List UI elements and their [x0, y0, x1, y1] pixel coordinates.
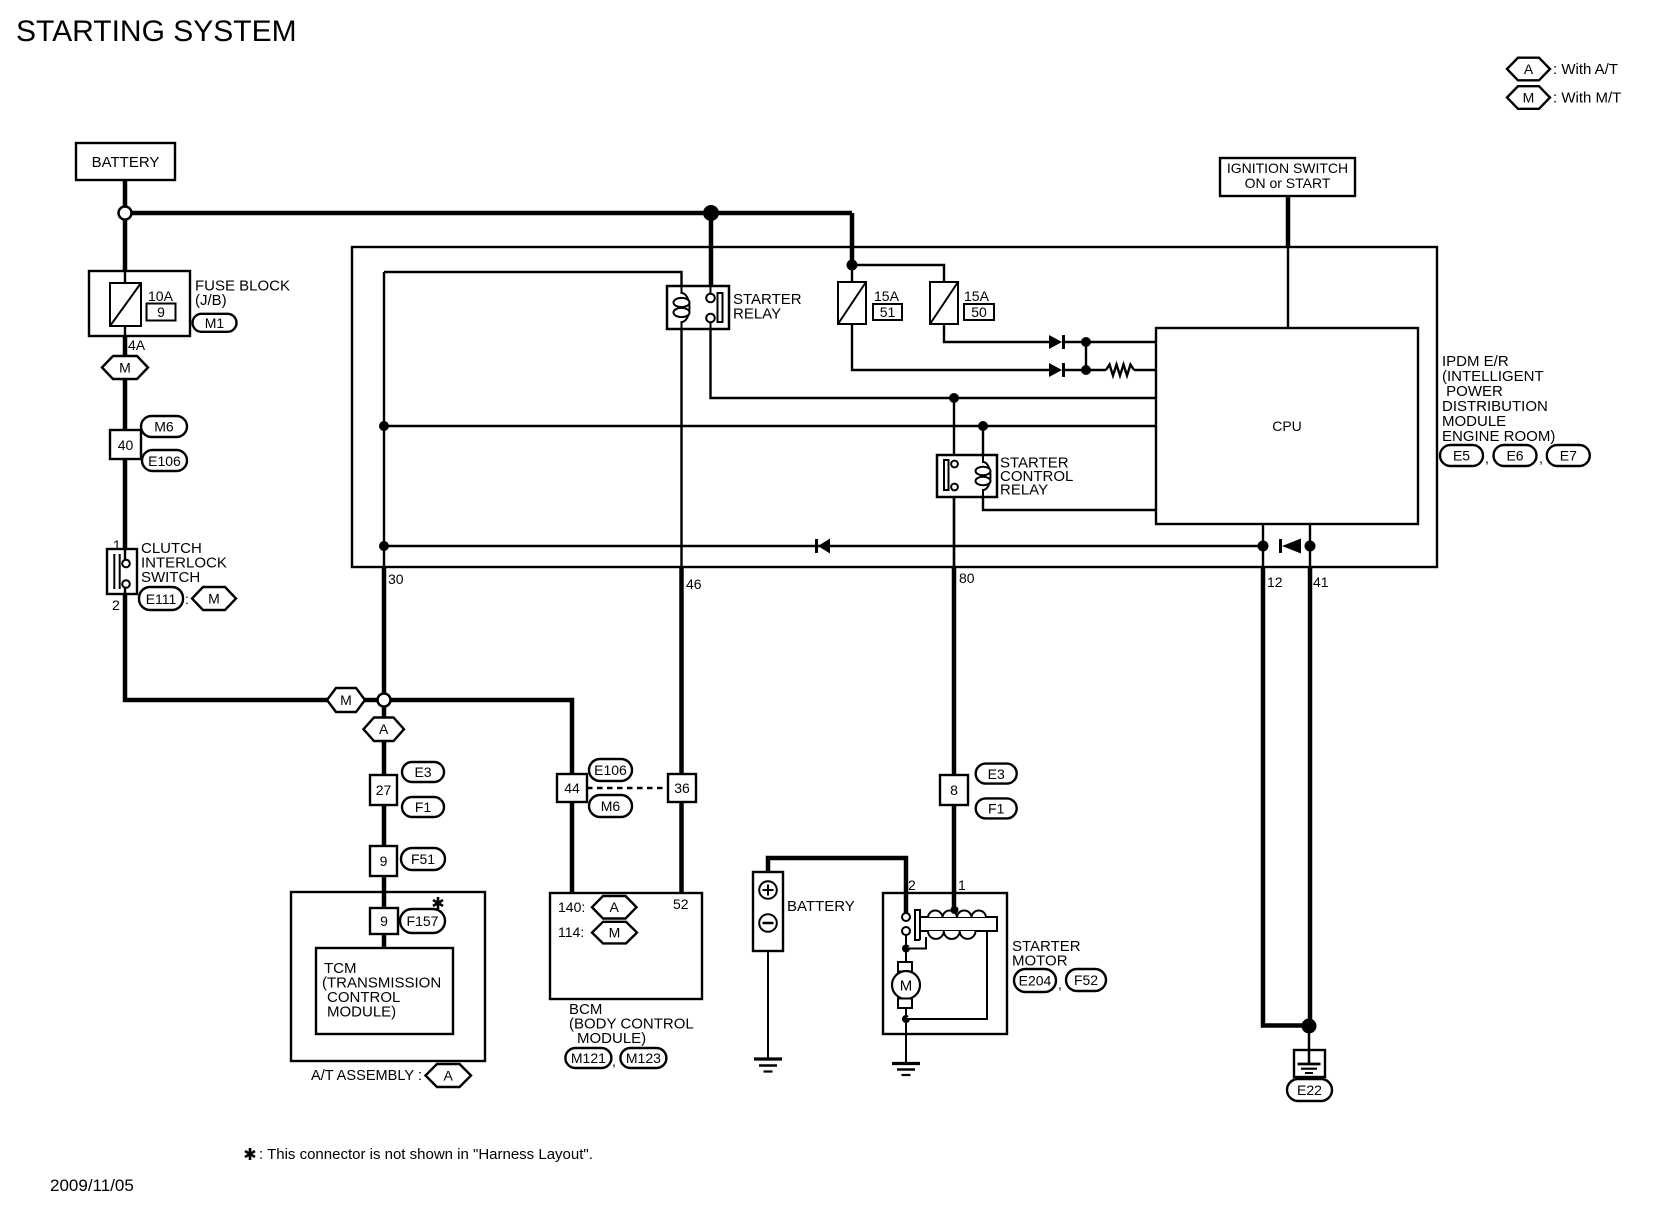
- svg-text:MODULE): MODULE): [327, 1004, 396, 1021]
- svg-text:MOTOR: MOTOR: [1012, 953, 1068, 970]
- connector oval F51: [401, 848, 445, 870]
- hexagon M in BCM: [592, 922, 637, 944]
- node motor bottom dot: [902, 1015, 910, 1023]
- BCM box: [550, 893, 702, 999]
- connector box 9: [370, 846, 397, 876]
- svg-text:F157: F157: [407, 913, 439, 929]
- wire to fuse 51: [851, 265, 853, 282]
- node big ground junction: [1302, 1019, 1317, 1034]
- wire motor ground: [905, 1019, 907, 1064]
- connector oval E6: [1494, 445, 1537, 466]
- TCM inner box: [316, 948, 453, 1034]
- fuse block box: [89, 271, 190, 336]
- svg-text:M: M: [900, 978, 913, 995]
- starter control relay: [937, 455, 997, 497]
- node contact to coil link: [902, 945, 910, 953]
- solenoid coil: [920, 917, 997, 931]
- svg-text:80: 80: [959, 570, 975, 586]
- svg-text:F52: F52: [1074, 972, 1098, 988]
- wire bus drop to fuses: [850, 213, 855, 265]
- svg-text:A: A: [1524, 61, 1534, 77]
- connector oval M123: [620, 1048, 666, 1068]
- svg-text:: With A/T: : With A/T: [1553, 61, 1618, 78]
- asterisk mark: [433, 897, 443, 909]
- svg-text:,: ,: [1058, 976, 1062, 992]
- svg-text:2009/11/05: 2009/11/05: [50, 1176, 134, 1195]
- hexagon A in BCM: [592, 896, 637, 919]
- connector oval E204: [1014, 969, 1056, 992]
- svg-text:M121: M121: [571, 1050, 606, 1066]
- connector oval M1: [193, 314, 237, 332]
- svg-text:E22: E22: [1297, 1082, 1322, 1098]
- svg-text:2: 2: [908, 877, 916, 893]
- TCM outer box A/T assembly: [291, 892, 485, 1061]
- ground symbol starter motor: [892, 1062, 920, 1065]
- svg-text:M6: M6: [154, 419, 174, 435]
- wire pin 80 to starter motor: [953, 497, 955, 567]
- starter relay: [667, 286, 729, 329]
- node open junction M/A: [378, 694, 391, 707]
- wire fuse 51 to CPU: [852, 324, 1049, 370]
- legend hexagon A: [1507, 58, 1550, 81]
- svg-text:ENGINE ROOM): ENGINE ROOM): [1442, 428, 1555, 445]
- motor M symbol: [905, 949, 907, 963]
- hexagon M on wire: [327, 688, 365, 712]
- svg-text:IGNITION SWITCH: IGNITION SWITCH: [1227, 160, 1348, 176]
- wire coil feed to starter relay: [384, 272, 682, 287]
- node W2 at 30 line: [379, 421, 389, 431]
- svg-text:114:: 114:: [558, 924, 584, 940]
- wire fuse 50 to CPU: [944, 324, 1049, 342]
- connector oval E3: [402, 762, 444, 782]
- node W2 at control relay coil: [978, 421, 988, 431]
- svg-text:15A: 15A: [874, 288, 900, 304]
- wire motor loop to coil: [906, 931, 987, 1019]
- svg-text:RELAY: RELAY: [733, 306, 781, 323]
- fuse number box 9: [147, 304, 176, 321]
- connector oval F1: [402, 797, 444, 817]
- ground symbol battery: [754, 1057, 782, 1060]
- svg-text:CPU: CPU: [1272, 418, 1302, 434]
- wire pin 30 to junction: [382, 567, 387, 694]
- svg-text:2: 2: [112, 597, 120, 613]
- wire branch to fuse 50: [852, 265, 944, 282]
- svg-text:E106: E106: [594, 762, 627, 778]
- node W3 at 30 line: [379, 541, 389, 551]
- resistor: [1106, 365, 1134, 376]
- svg-text:E111: E111: [146, 591, 177, 607]
- svg-text:: With M/T: : With M/T: [1553, 90, 1621, 107]
- svg-text:E3: E3: [414, 764, 431, 780]
- IPDM E/R outer box: [352, 247, 1437, 567]
- contact circles: [905, 931, 907, 949]
- starter motor box: [883, 893, 1007, 1034]
- svg-text:F1: F1: [415, 799, 432, 815]
- svg-text:A: A: [444, 1068, 454, 1084]
- diode on fuse51 line: [1049, 363, 1062, 377]
- footnote asterisk: [245, 1148, 255, 1160]
- svg-text:10A: 10A: [148, 288, 174, 304]
- wire pin 46 to BCM 52: [679, 567, 684, 893]
- svg-text:M1: M1: [205, 315, 225, 331]
- svg-text:,: ,: [1539, 450, 1543, 466]
- wire pin2 inside: [904, 893, 909, 913]
- svg-text:A: A: [610, 899, 620, 915]
- clutch interlock switch: [107, 549, 137, 594]
- svg-text:9: 9: [157, 304, 165, 320]
- connector box 27: [370, 775, 397, 805]
- node contact tap: [949, 393, 959, 403]
- svg-text::: :: [185, 591, 189, 607]
- wire through fuse: [124, 271, 126, 283]
- svg-text:ON or START: ON or START: [1245, 175, 1331, 191]
- battery symbol box: [753, 872, 783, 951]
- svg-text:F1: F1: [988, 801, 1005, 817]
- svg-text:E6: E6: [1506, 448, 1523, 464]
- wire main bus from battery junction to right: [125, 211, 852, 216]
- wire ignition switch down: [1286, 196, 1291, 247]
- svg-text:M6: M6: [601, 798, 621, 814]
- svg-text:50: 50: [971, 304, 987, 320]
- node dots and link between diode lines: [1081, 337, 1091, 347]
- node open junction at battery tap: [119, 207, 132, 220]
- wire control relay coil to CPU: [983, 490, 1156, 510]
- node dot pin41 line: [1305, 541, 1316, 552]
- hexagon M at clutch switch: [192, 587, 236, 610]
- wire fuse block down: [123, 336, 128, 549]
- connector box 40: [110, 430, 141, 459]
- svg-text:12: 12: [1267, 574, 1283, 590]
- hexagon M below fuse: [102, 356, 148, 379]
- wire control relay contact from CPU line: [953, 398, 955, 461]
- svg-text:A: A: [379, 721, 389, 737]
- svg-text:1: 1: [958, 877, 966, 893]
- connector oval E5: [1440, 445, 1483, 466]
- svg-text:44: 44: [564, 780, 580, 796]
- hexagon A at A/T assembly: [426, 1064, 472, 1087]
- wire junction right to BCM pin 44 drop: [384, 700, 572, 893]
- svg-text:F51: F51: [411, 851, 435, 867]
- wire junction down to TCM: [382, 700, 387, 948]
- svg-text:A/T ASSEMBLY :: A/T ASSEMBLY :: [311, 1067, 422, 1084]
- svg-text:52: 52: [673, 896, 689, 912]
- connector oval E22: [1287, 1079, 1332, 1101]
- diode on fuse50 line: [1049, 335, 1062, 349]
- fuse 10A symbol: [110, 283, 141, 326]
- wire battery feed into starter relay: [709, 213, 714, 287]
- fuse 50 15A: [930, 282, 958, 324]
- svg-text:51: 51: [880, 304, 896, 320]
- svg-text:E3: E3: [988, 766, 1005, 782]
- fuse 51 15A: [838, 282, 866, 324]
- diode between 12 and 41 pointing left: [1279, 539, 1282, 553]
- svg-text:MODULE): MODULE): [577, 1030, 646, 1047]
- connector box 8: [940, 775, 968, 805]
- wire control relay coil from W2: [982, 426, 984, 462]
- connector oval E106: [589, 759, 632, 781]
- wire 30 line vertical: [383, 272, 385, 567]
- connector oval E111: [139, 587, 183, 610]
- connector box 36: [668, 774, 696, 802]
- svg-text:BATTERY: BATTERY: [787, 898, 855, 915]
- svg-text:E204: E204: [1019, 973, 1052, 989]
- svg-text:(J/B): (J/B): [195, 292, 227, 309]
- wire control relay contact down to pin 80: [953, 490, 955, 567]
- svg-text:BATTERY: BATTERY: [92, 154, 160, 171]
- svg-text:1: 1: [113, 537, 121, 553]
- connector oval E3: [976, 764, 1017, 784]
- svg-text:: This connector is not shown: : This connector is not shown in "Harnes…: [259, 1146, 593, 1163]
- connector oval M121: [565, 1048, 611, 1068]
- connector oval E7: [1547, 445, 1590, 466]
- svg-text:STARTING SYSTEM: STARTING SYSTEM: [16, 15, 297, 48]
- wire W2 to CPU: [384, 425, 1156, 427]
- svg-text:15A: 15A: [964, 288, 990, 304]
- svg-text:9: 9: [380, 913, 388, 929]
- battery box: [76, 143, 175, 180]
- svg-text:M: M: [609, 925, 621, 941]
- svg-text:M123: M123: [626, 1050, 661, 1066]
- connector oval M6: [589, 795, 632, 817]
- dashed link 44 to 36: [587, 787, 668, 789]
- wire to ground E22: [1308, 1026, 1311, 1064]
- svg-text:36: 36: [674, 780, 690, 796]
- wire CPU pin 41: [1309, 524, 1311, 567]
- CPU box: [1156, 328, 1418, 524]
- wire CPU pin 12: [1262, 524, 1264, 567]
- wire starter relay coil to pin 46: [680, 329, 682, 567]
- svg-text:M: M: [119, 360, 131, 376]
- svg-text:M: M: [340, 692, 352, 708]
- node fuse feed junction: [847, 260, 858, 271]
- svg-text:40: 40: [118, 437, 134, 453]
- connector oval M6: [141, 416, 187, 437]
- connector oval F157: [400, 909, 445, 933]
- battery ground wire: [767, 951, 769, 1059]
- wire battery down to junction: [123, 180, 128, 271]
- wire pin 41 down: [1308, 567, 1313, 1026]
- connector oval E106: [142, 450, 187, 471]
- node coil top dot: [951, 906, 959, 914]
- ground symbol E22: [1294, 1050, 1325, 1077]
- wire pin 12 down: [1263, 567, 1309, 1026]
- ignition switch box: [1220, 158, 1355, 196]
- wire starter relay contact to CPU: [711, 329, 1157, 398]
- svg-text:41: 41: [1313, 574, 1329, 590]
- wire clutch switch down and right to junction: [125, 594, 384, 700]
- svg-text:30: 30: [388, 571, 404, 587]
- connector box 44: [557, 774, 587, 802]
- svg-text:,: ,: [612, 1053, 616, 1069]
- connector oval F1: [976, 798, 1017, 818]
- connector box 9 (F157): [370, 908, 398, 934]
- hexagon A on wire: [364, 718, 405, 742]
- wire battery2 to starter motor: [768, 858, 906, 913]
- svg-text:8: 8: [950, 782, 958, 798]
- svg-text:M: M: [1523, 90, 1535, 106]
- svg-text:M: M: [208, 591, 220, 607]
- svg-text:140:: 140:: [558, 899, 585, 915]
- svg-text:46: 46: [686, 576, 702, 592]
- svg-text:27: 27: [376, 782, 392, 798]
- node big junction on bus: [703, 205, 719, 221]
- diode on W3 pointing left: [815, 539, 818, 553]
- wire coil pin1 inside: [952, 893, 957, 910]
- connector oval F52: [1066, 969, 1106, 991]
- legend hexagon M: [1507, 86, 1550, 109]
- svg-text:E7: E7: [1560, 448, 1577, 464]
- node dot pin12 line: [1258, 541, 1269, 552]
- svg-text:E106: E106: [148, 453, 181, 469]
- svg-text:,: ,: [1485, 450, 1489, 466]
- svg-text:4A: 4A: [128, 337, 146, 353]
- wire W3 diode line: [384, 545, 1263, 547]
- svg-text:9: 9: [380, 853, 388, 869]
- svg-text:SWITCH: SWITCH: [141, 569, 200, 586]
- svg-text:RELAY: RELAY: [1000, 482, 1048, 499]
- svg-text:E5: E5: [1453, 448, 1470, 464]
